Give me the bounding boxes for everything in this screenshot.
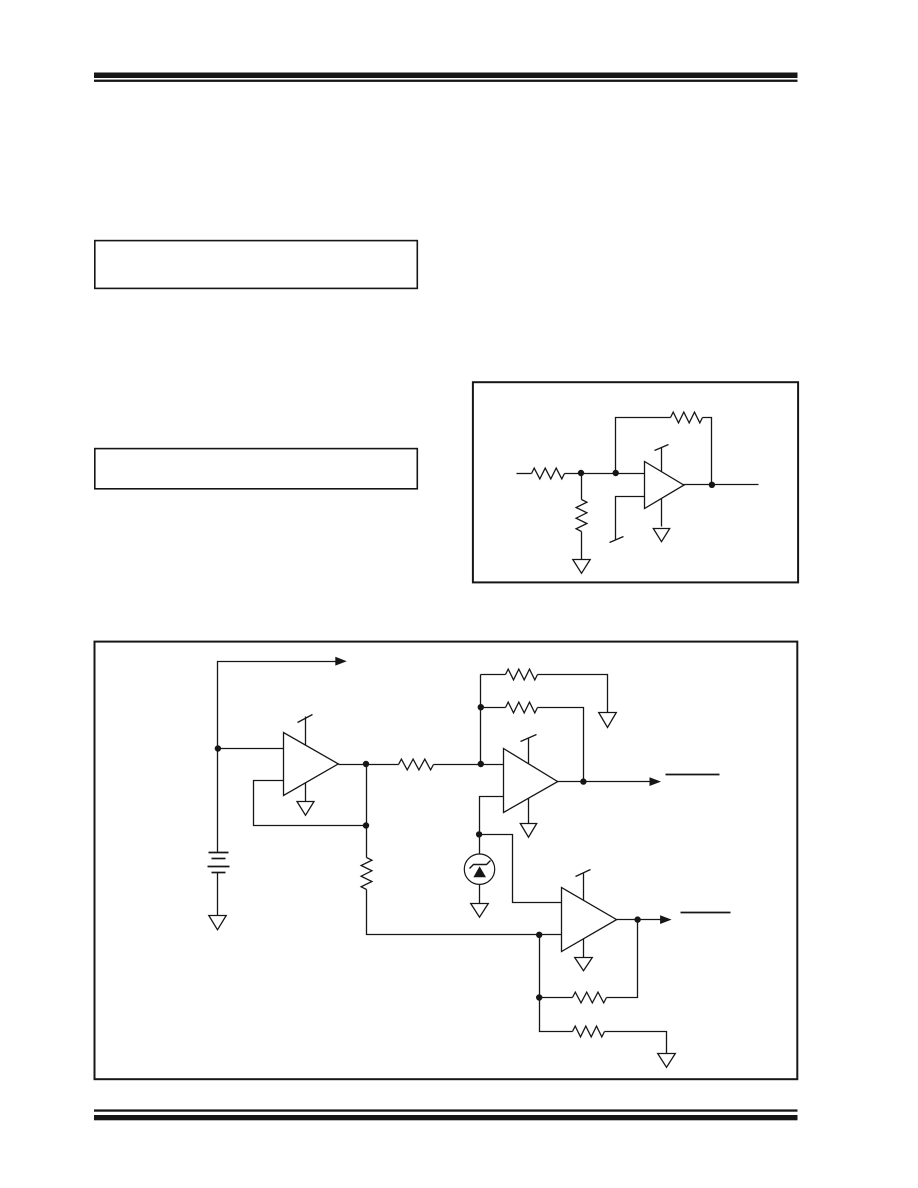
wire top thin rule [94,80,798,82]
wire reference bottom lead [479,885,481,904]
node U1 V+ rail slash [655,445,669,451]
resistor R6 gain top [506,669,538,680]
wire VIN arrow line [218,662,336,749]
wire R6 left lead [481,674,506,676]
wire feedback right leg [703,418,712,485]
op-amp A2 [504,749,558,813]
node input junction [215,745,221,751]
wire R3 to ground [581,532,583,560]
battery V1 short plate 1 [212,858,226,860]
wire R8 to A3 output [607,920,638,998]
wire R6 to ground drop [538,675,608,713]
ground under battery [209,916,226,930]
wire top thick rule [94,73,798,79]
resistor R7 feedback [506,702,538,713]
wire R7 to A2 output [538,708,584,782]
node D1 cathode bar [470,861,491,869]
wire A1 output [339,764,399,766]
ground under R9 [658,1054,676,1068]
op-amp A3 [562,888,617,952]
node title box 1 [95,241,418,289]
ground under A2 [520,824,536,838]
wire junction A down [581,474,583,500]
node A1 V+ rail slash [298,715,313,723]
node figure 1 frame [95,642,798,1080]
node A1 feedback junction [363,822,369,828]
node A1 output junction [363,761,369,767]
wire A1 feedback [254,781,367,826]
ground under A3 [575,958,593,971]
wire divider to A2 lower path [367,890,540,935]
resistor R2 feedback [671,412,703,423]
wire A3 V- stub [583,939,585,958]
ground under reference [471,904,489,918]
wire U1 V+ stub [661,448,663,472]
node junction B [613,470,619,476]
wire A1 output junction down [366,765,368,858]
node A2 V+ rail slash [521,735,537,742]
node A2 output junction [580,778,586,784]
resistor R1 input [532,468,565,479]
wire A2 inverting input [480,797,504,835]
wire bottom thin rule [94,1109,798,1111]
wire R8 left lead [540,997,573,999]
node A2 feedback junction [478,704,484,710]
wire U1 output [684,484,759,486]
resistor R9 to ground [573,1026,605,1037]
wire reference top lead [479,835,481,855]
node A3 V+ rail slash [576,870,591,877]
ground under A1 [297,802,314,816]
battery V1 short plate 2 [212,872,226,874]
wire A1 V- stub [305,783,307,802]
node A3 output junction [634,916,640,922]
wire reference to A3 input [480,835,562,903]
wire battery to ground [217,873,219,916]
wire input to op-amp [565,473,645,475]
op-amp A1 buffer [284,733,339,796]
wire A2 V- stub [528,799,530,824]
wire A2 V+ stub [528,738,530,764]
node junction A [578,470,584,476]
battery V1 long plate 2 [208,866,230,868]
wire feedback left leg [616,418,671,474]
node title box 2 [95,449,418,489]
node VOUT1 label line [666,774,720,776]
wire A3 output [617,919,661,921]
op-amp U1 [645,462,684,509]
current reference D1 circle [464,854,494,884]
wire R7 left lead [481,707,506,709]
wire to op-amp A1 [218,748,284,750]
wire A2 feedback riser [480,675,482,765]
wire A2 output [558,781,650,783]
battery V1 long plate 1 [209,852,229,854]
wire bottom thick rule [94,1115,798,1120]
node output junction [709,482,715,488]
battery V1 lead [217,749,219,853]
node figure 2 frame [473,382,798,582]
node A3 input junction [536,932,542,938]
wire A1 V+ stub [305,717,307,746]
wire A3 input to feedback node [539,935,541,998]
ground under R3 [573,560,590,574]
node A2 input junction [478,761,484,767]
node VIN arrowhead [335,657,347,666]
wire A3 V+ stub [583,874,585,901]
resistor R4 divider top [361,858,372,890]
wire U1 V- stub [661,499,663,527]
wire input lead [517,473,532,475]
resistor R3 to ground [576,500,587,532]
wire A3 inverting input [540,934,562,936]
wire R9 to ground drop [605,1032,667,1054]
ground under R6 [599,713,617,728]
resistor R8 feedback [573,992,607,1003]
wire U1 inverting input [616,497,645,540]
ground under U1 [653,529,669,542]
node VOUT2 label line [681,912,731,914]
resistor R5 between stages [399,759,434,770]
wire R5 to A2 input [434,764,504,766]
node A3 output arrowhead [660,915,672,924]
node A3 feedback junction [536,994,542,1000]
wire R9 left leg [540,998,573,1032]
node U1 V- rail slash [610,537,624,543]
node D1 anode triangle [473,866,486,877]
node A2 output arrowhead [650,777,662,786]
node reference junction [476,831,482,837]
